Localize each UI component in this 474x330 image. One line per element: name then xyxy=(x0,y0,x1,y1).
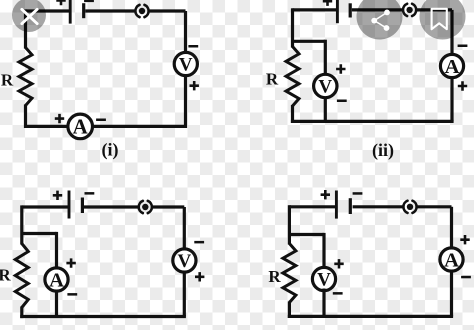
label minus of ammeter (ii) xyxy=(458,45,468,48)
svg-text:(ii): (ii) xyxy=(372,140,394,161)
voltmeter V (iv) xyxy=(312,267,335,290)
label minus of ammeter (iii) xyxy=(67,293,77,296)
svg-text:R: R xyxy=(268,267,281,286)
wire: (i) top-left segment to battery xyxy=(26,9,70,12)
resistor R (iv) xyxy=(283,244,296,303)
voltmeter V (iii) xyxy=(173,249,196,272)
wire: (iii) left wire upper xyxy=(20,205,23,244)
svg-text:V: V xyxy=(317,269,331,290)
label minus of ammeter (i) xyxy=(96,119,106,122)
wire: (iv) bottom wire xyxy=(288,315,453,318)
battery cell: long positive plate xyxy=(69,0,72,24)
svg-text:R: R xyxy=(266,70,279,89)
wire: (iv) voltmeter branch horizontal xyxy=(289,233,324,236)
wire: (iii) top-left segment to battery xyxy=(22,205,68,208)
label minus of voltmeter (i) xyxy=(188,45,198,48)
resistor R (ii) xyxy=(286,47,299,107)
resistor R (i) xyxy=(19,48,32,106)
wire: (ii) voltmeter branch vertical upper xyxy=(324,40,327,76)
label minus of ammeter (iv) xyxy=(461,276,471,279)
battery cell: long positive plate xyxy=(336,0,339,23)
wire: (ii) right wire lower xyxy=(450,78,453,122)
wire: (i) right wire lower xyxy=(184,76,187,129)
caption (ii) xyxy=(372,140,394,161)
svg-text:A: A xyxy=(49,269,64,291)
label R (iii) xyxy=(0,266,11,285)
svg-text:A: A xyxy=(444,249,459,271)
svg-text:V: V xyxy=(179,54,193,75)
svg-text:R: R xyxy=(1,71,14,90)
battery label + (iv) xyxy=(321,190,330,199)
ammeter A (i) xyxy=(68,114,93,139)
svg-text:A: A xyxy=(445,56,460,78)
wire: (i) left wire lower xyxy=(24,105,27,129)
wire: (i) bottom segment left to ammeter xyxy=(26,125,68,128)
battery cell: long positive plate xyxy=(68,191,71,219)
wire: (iii) right wire upper xyxy=(183,207,186,250)
close button grey circle xyxy=(12,0,46,32)
share icon glyph xyxy=(371,10,390,31)
wire: (iii) left wire lower xyxy=(20,307,23,319)
resistor R (iii) xyxy=(15,244,28,308)
battery label + (ii) cut off xyxy=(323,0,332,6)
wire: (iii) top segment battery to key xyxy=(84,205,139,208)
wire: (iii) right wire lower xyxy=(183,272,186,317)
battery label + (cut off at top) xyxy=(56,0,65,5)
plug key (ii) xyxy=(403,4,416,16)
wire: (i) right wire upper xyxy=(184,11,187,53)
wire: (iii) top segment key to right xyxy=(152,205,185,208)
label minus of voltmeter (ii) xyxy=(337,100,347,103)
caption (i) xyxy=(102,140,119,161)
close button X glyph xyxy=(22,9,37,23)
wire: (iii) ammeter branch vertical lower xyxy=(55,290,58,317)
svg-text:R: R xyxy=(0,266,11,285)
label R (i) xyxy=(1,71,14,90)
battery label minus (iii) xyxy=(85,192,95,195)
share button grey circle xyxy=(357,0,403,40)
wire: (iv) left wire upper xyxy=(288,205,291,244)
wire: (ii) left wire upper xyxy=(291,8,294,47)
wire: (iv) right wire lower xyxy=(450,271,453,316)
wire: (i) top segment key to right corner xyxy=(148,9,185,12)
label + of voltmeter (i) xyxy=(190,81,199,90)
voltmeter V (ii) xyxy=(314,74,337,97)
wire: (ii) top segment key to right xyxy=(416,8,452,11)
svg-text:(i): (i) xyxy=(102,140,119,161)
label R (ii) xyxy=(266,70,279,89)
wire: (iv) voltmeter branch vertical upper xyxy=(322,233,325,270)
wire: (ii) top segment battery to key xyxy=(352,8,404,11)
wire: (iii) ammeter branch vertical upper xyxy=(55,232,58,270)
ammeter A (iv) xyxy=(440,248,463,271)
battery label minus (iv) xyxy=(353,192,363,195)
wire: (i) bottom segment ammeter to right xyxy=(93,125,186,128)
wire: (ii) left wire lower xyxy=(291,105,294,123)
svg-text:A: A xyxy=(73,114,89,138)
bookmark button grey circle xyxy=(420,0,466,40)
voltmeter V (i) xyxy=(174,52,197,75)
wire: (iii) ammeter branch horizontal xyxy=(22,232,57,235)
battery label minus (cut off at top) xyxy=(84,0,94,2)
battery cell: short negative plate xyxy=(81,198,84,214)
ammeter A (iii) xyxy=(45,268,68,291)
bookmark icon glyph xyxy=(432,9,447,29)
battery label + (iii) xyxy=(53,191,62,200)
wire: (ii) voltmeter branch vertical lower xyxy=(324,97,327,121)
battery cell: short negative plate xyxy=(349,198,352,214)
label + of voltmeter (ii) xyxy=(336,64,345,73)
label minus of voltmeter (iii) xyxy=(194,241,204,244)
battery cell: short negative plate xyxy=(82,3,85,18)
svg-text:V: V xyxy=(178,251,192,272)
plug key (iii) xyxy=(139,201,152,213)
label + of ammeter (ii) xyxy=(458,81,467,90)
wire: (iv) top segment key to right xyxy=(416,205,451,208)
wire: (iv) right wire upper xyxy=(450,207,453,250)
wire: (i) top segment battery to key K1 xyxy=(85,9,136,12)
wire: (ii) top-left segment to battery xyxy=(293,8,337,11)
label + of ammeter (iv) xyxy=(460,235,469,244)
wire: (ii) bottom wire xyxy=(291,120,454,123)
label + of voltmeter (iii) xyxy=(195,272,204,281)
ammeter A (ii) xyxy=(440,54,463,77)
wire: (iii) bottom wire xyxy=(20,315,186,318)
label + of voltmeter (iv) xyxy=(334,259,343,268)
wire: (iv) voltmeter branch vertical lower xyxy=(322,289,325,317)
plug key (iv) xyxy=(403,201,416,213)
wire: (iv) top segment battery to key xyxy=(353,205,404,208)
wire: (i) left wire upper xyxy=(24,9,27,48)
battery cell: short negative plate xyxy=(349,3,352,17)
label R (iv) xyxy=(268,267,281,286)
label minus of voltmeter (iv) xyxy=(333,292,343,295)
svg-text:V: V xyxy=(318,76,332,97)
wire: (ii) voltmeter branch horizontal xyxy=(293,40,326,43)
wire: (iv) top-left segment to battery xyxy=(289,205,335,208)
plug key (i) xyxy=(135,5,148,17)
label + of ammeter (i) xyxy=(55,114,64,123)
battery cell: long positive plate xyxy=(335,191,338,219)
wire: (ii) right wire upper xyxy=(450,10,453,55)
label + of ammeter (iii) xyxy=(66,258,75,267)
wire: (iv) left wire lower xyxy=(288,302,291,319)
